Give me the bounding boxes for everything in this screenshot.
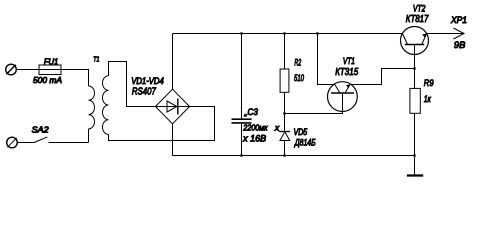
- svg-text:510: 510: [294, 73, 304, 84]
- transistor VT1: [328, 82, 358, 112]
- transistor VT2: [401, 27, 429, 69]
- bridge inner diode: [155, 99, 189, 115]
- svg-text:Т1: Т1: [93, 55, 99, 64]
- svg-text:КТ315: КТ315: [335, 67, 358, 78]
- bridge rectifier VD1-VD4 diamond: [155, 89, 189, 124]
- wire VT1 collector to plus bus: [318, 34, 335, 85]
- node dot VT2 base / R9: [413, 67, 416, 70]
- svg-text:R2: R2: [294, 57, 301, 67]
- switch SA2: [34, 137, 88, 143]
- wire secondary bottom to bridge right: [109, 107, 215, 141]
- node dot bus C3 bottom: [240, 154, 243, 157]
- svg-text:ХР1: ХР1: [450, 15, 467, 25]
- node dot bus VT1 collector: [316, 32, 319, 35]
- wire terminal to fuse: [16, 69, 40, 71]
- wire bridge bottom to minus bus: [172, 124, 174, 156]
- zener diode VD5: [277, 114, 290, 156]
- resistor R9: [410, 69, 420, 156]
- resistor R2: [280, 34, 289, 114]
- svg-text:VD5: VD5: [294, 127, 308, 137]
- wire VT2 emitter to output: [427, 33, 464, 35]
- svg-text:х 16В: х 16В: [242, 133, 266, 143]
- svg-text:VT2: VT2: [413, 4, 426, 14]
- wire bridge top to plus bus: [172, 34, 174, 90]
- wire secondary top to bridge left: [109, 62, 156, 107]
- wire VT1 emitter to VT2 base node: [350, 69, 415, 85]
- C3 leader arrow: [244, 114, 248, 117]
- wire fuse to transformer primary: [61, 70, 89, 87]
- svg-text:9В: 9В: [454, 40, 466, 51]
- minus bus wire: [173, 155, 415, 157]
- svg-text:VT1: VT1: [343, 56, 355, 66]
- svg-text:VD1-VD4: VD1-VD4: [131, 76, 164, 86]
- input terminal bottom: [7, 137, 18, 148]
- node dot bus R2 top: [283, 32, 286, 35]
- node A dot R2/VD5/VT1 base: [283, 112, 286, 115]
- connector pin XP1 arrow: [453, 28, 464, 39]
- svg-text:КТ817: КТ817: [406, 14, 429, 25]
- svg-text:2200мк: 2200мк: [242, 123, 268, 133]
- svg-text:1к: 1к: [424, 94, 431, 104]
- svg-text:500 mA: 500 mA: [33, 75, 62, 85]
- svg-text:RS407: RS407: [132, 85, 157, 97]
- fuse FU1: [39, 65, 61, 75]
- capacitor C3: [232, 34, 252, 156]
- node dot bus VD5 bottom: [283, 154, 286, 157]
- svg-text:C3: C3: [248, 107, 259, 118]
- input terminal top: [6, 64, 17, 75]
- svg-text:SA2: SA2: [32, 125, 49, 135]
- plus bus wire: [173, 33, 403, 35]
- ground chassis: [407, 156, 423, 176]
- svg-text:FU1: FU1: [44, 57, 58, 66]
- wire node A to VT1 base: [285, 111, 343, 113]
- wire primary bottom to switch: [88, 129, 90, 143]
- node dot bus C3 top: [240, 32, 243, 35]
- node dot bus ground: [413, 154, 416, 157]
- transformer T1 secondary winding: [103, 76, 109, 135]
- transformer T1 primary winding: [89, 86, 95, 129]
- svg-text:R9: R9: [424, 78, 434, 89]
- svg-text:Д814Б: Д814Б: [294, 138, 316, 149]
- wire terminal to switch: [17, 142, 34, 144]
